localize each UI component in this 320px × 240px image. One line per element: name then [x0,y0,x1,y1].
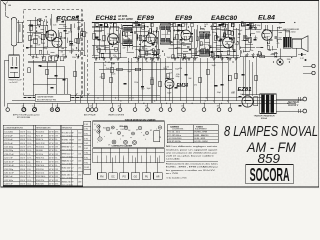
ECH81 grounds [94,58,119,61]
B+ supply top rail [92,23,285,28]
resistor R18 [102,73,104,79]
svg-text:0,1: 0,1 [72,45,74,47]
svg-text:R5 100 k: R5 100 k [36,146,45,148]
IF transformer T3 detector [199,32,210,56]
svg-text:220k: 220k [287,59,291,61]
svg-text:realises pour un appareil: realises pour un appareil ayant [166,148,218,151]
EF89 IF amp stage wiring [133,23,160,59]
svg-text:2,2k: 2,2k [179,44,182,46]
svg-text:R15 820: R15 820 [36,184,45,186]
svg-text:47k: 47k [277,43,280,45]
svg-text:50pF: 50pF [238,30,242,32]
svg-text:EF: EF [136,130,138,132]
svg-text:50pF: 50pF [147,88,151,90]
svg-text:EF89 85 V: EF89 85 V [62,146,72,148]
power transformer label [254,114,276,120]
svg-text:RESISTANCES: RESISTANCES [36,126,51,129]
trimmer capacitor row [29,19,45,43]
capacitor C12 [143,40,146,41]
svg-text:5%: 5% [55,139,58,141]
svg-text:1nF: 1nF [123,47,126,49]
svg-text:R4 2,2 M: R4 2,2 M [36,143,45,145]
ferrite rod antenna L1 [11,18,22,47]
capacitor C5 [70,43,73,44]
svg-text:C15 220p: C15 220p [4,150,14,152]
svg-text:100p: 100p [170,44,174,46]
chassis layout parts [94,124,162,146]
svg-text:2 W: 2 W [55,154,59,156]
chassis underside view box [93,119,165,148]
svg-text:500p: 500p [163,68,167,70]
magic eye EM34 [165,78,174,101]
svg-text:235: 235 [78,167,81,169]
svg-text:o o: o o [130,137,132,139]
svg-text:450 V: 450 V [20,154,26,156]
component value annotations [35,23,291,96]
svg-text:500p: 500p [257,25,261,27]
svg-text:10 %: 10 % [27,165,32,167]
vertical feed wires to chassis bus [94,55,245,103]
svg-text:EL84: EL84 [258,15,275,22]
svg-text:150: 150 [78,132,81,134]
svg-text:5nF: 5nF [173,37,176,39]
filter capacitor block [254,97,258,106]
resistor R20 [151,58,153,103]
svg-text:ECC85 - EM34: ECC85 - EM34 [195,141,209,143]
svg-text:100p: 100p [101,40,105,42]
svg-text:1/2 W: 1/2 W [49,176,54,178]
svg-text:450 V: 450 V [20,180,26,182]
svg-text:450 V: 450 V [20,135,26,137]
svg-text:FM: FM [100,176,103,178]
svg-text:450 V: 450 V [20,158,26,160]
svg-text:une resistance de 20000 ohm: une resistance de 20000 ohms par [166,151,218,154]
resistor R10 [155,37,157,43]
svg-text:mes. 20 kO/V: mes. 20 kO/V [62,143,74,145]
svg-text:R13 330 k: R13 330 k [36,176,46,178]
svg-text:1 W: 1 W [55,180,59,182]
svg-text:R7 33 k: R7 33 k [36,154,44,156]
resistor R16 [249,37,251,43]
svg-text:10%: 10% [55,184,59,186]
push button keys [98,158,163,180]
svg-text:450 V: 450 V [20,132,26,134]
keyboard switch comb [93,148,165,162]
svg-text:C4 50 pF: C4 50 pF [4,135,13,137]
svg-text:TYPE 2250: TYPE 2250 [285,32,297,34]
svg-text:R10 56 k: R10 56 k [36,165,45,167]
svg-text:25uF: 25uF [222,37,226,39]
svg-text:1/2 W: 1/2 W [49,173,54,175]
svg-text:8uF: 8uF [56,55,59,57]
svg-text:10%: 10% [55,132,59,134]
svg-text:2,2k: 2,2k [274,57,277,59]
svg-text:1nF: 1nF [145,38,148,40]
FM front-end wiring [26,14,84,56]
svg-text:450 V: 450 V [20,173,26,175]
svg-text:12k: 12k [232,24,235,26]
svg-text:5%: 5% [55,158,58,160]
EABC80 tube symbol [223,37,234,48]
svg-text:47k: 47k [246,95,249,97]
svg-text:volt et au plus basse calibre: volt et au plus basse calibre [166,155,215,158]
svg-text:R14 22 k: R14 22 k [36,180,45,182]
svg-text:470k: 470k [111,63,115,65]
svg-text:184: 184 [78,146,81,148]
dial lamp label box [35,94,70,101]
svg-text:1nF: 1nF [80,40,83,42]
svg-text:1 W: 1 W [55,173,59,175]
earphone jack [277,49,283,65]
border frame [1,1,319,187]
svg-text:C12 100p: C12 100p [4,146,14,148]
svg-text:2,2k: 2,2k [100,77,103,79]
svg-text:CH: CH [128,130,130,132]
power transformer [260,94,277,114]
svg-text:220k: 220k [138,56,142,58]
svg-text:mes. 20 kO/V: mes. 20 kO/V [62,185,74,187]
svg-text:C9 25 uF: C9 25 uF [4,143,13,145]
svg-text:20 %: 20 % [27,180,32,182]
svg-text:100p: 100p [176,76,180,78]
svg-text:30pF: 30pF [127,71,131,73]
svg-text:47k: 47k [113,55,116,57]
svg-text:NB Les differents reglages on: NB Les differents reglages ont ete [166,145,219,148]
svg-text:220k: 220k [216,49,220,51]
svg-text:8uF: 8uF [183,45,186,47]
svg-text:OC 16 - 52 m: OC 16 - 52 m [169,132,181,134]
tone capacitor [298,53,306,60]
svg-text:1/2 W: 1/2 W [49,154,54,156]
svg-text:220k: 220k [134,82,138,84]
ECH81 stage wiring [92,23,122,59]
switch caption texts [13,113,125,119]
capacitor C8 [63,79,66,80]
svg-text:0,5M: 0,5M [145,51,149,53]
AVC bus [94,61,228,63]
svg-text:1/2 W: 1/2 W [49,135,54,137]
svg-text:285: 285 [217,106,220,108]
svg-text:1k: 1k [265,37,267,39]
capacitor C21 [141,86,144,87]
svg-text:300o: 300o [69,41,73,43]
svg-text:8uF: 8uF [142,88,145,90]
second EF89 grounds [173,58,196,61]
svg-text:mes. 20 kO/V: mes. 20 kO/V [62,164,74,166]
phono output jack [303,64,315,74]
svg-text:50pF: 50pF [217,92,221,94]
svg-text:C18 47 nF: C18 47 nF [4,154,14,156]
svg-text:ou 2e H.P.: ou 2e H.P. [10,82,19,84]
svg-text:C31 220p: C31 220p [4,169,14,171]
second EF89 stage wiring [171,23,198,59]
resistor R14 [232,37,234,43]
output transformer [267,25,291,48]
svg-text:100p: 100p [201,29,205,31]
svg-text:220k: 220k [68,32,72,34]
svg-text:les gammes a verifier au: les gammes a verifier au 20 kO/V [166,169,216,172]
svg-text:450 V: 450 V [20,139,26,141]
IF transformer T1 [123,26,133,46]
capacitor C22 [185,74,188,75]
pick-up input box PU [9,55,23,84]
svg-text:218: 218 [78,160,81,162]
svg-text:2,2k: 2,2k [232,92,235,94]
svg-text:25uF: 25uF [106,68,110,70]
svg-text:1/2 W: 1/2 W [49,169,54,171]
svg-text:10 EC: 10 EC [84,167,90,169]
svg-text:2x25: 2x25 [112,74,116,76]
loudspeaker [292,36,308,52]
svg-text:1 W: 1 W [55,146,59,148]
svg-text:ECH81 - EF89: ECH81 - EF89 [195,132,208,134]
svg-text:C24 10 uF: C24 10 uF [4,161,14,163]
svg-text:EF89 210 V: EF89 210 V [62,153,73,155]
svg-text:8uF: 8uF [189,78,192,80]
resistor R13 [215,35,217,41]
EABC80 detector stage wiring [210,23,240,59]
svg-text:470k: 470k [195,52,199,54]
svg-text:450 V: 450 V [20,169,26,171]
svg-text:2x25: 2x25 [169,72,173,74]
resistor R2 [77,38,79,44]
svg-text:47k: 47k [148,36,151,38]
svg-text:C44 8 uF: C44 8 uF [4,184,13,186]
svg-text:827 FM 851 AM: 827 FM 851 AM [17,116,30,119]
SOCORA logo box [246,164,293,185]
svg-text:C1 2x450: C1 2x450 [4,132,14,134]
paper grain [0,0,320,189]
svg-text:230: 230 [181,106,184,108]
svg-text:C7 10 nF: C7 10 nF [4,139,13,141]
svg-text:mes. 20 kO/V: mes. 20 kO/V [62,157,74,159]
svg-text:O du mandrin a 7/16: O du mandrin a 7/16 [167,177,188,180]
svg-text:EABC80: EABC80 [211,15,237,22]
svg-text:ONDES COURTES: ONDES COURTES [108,114,125,116]
svg-text:EZ81: EZ81 [238,87,252,93]
svg-text:1 W: 1 W [55,135,59,137]
svg-text:PO: PO [123,176,127,178]
second EF89 tube symbol [181,30,191,40]
svg-text:5 %: 5 % [27,176,31,178]
resistor R7 [103,35,105,41]
svg-text:12k: 12k [145,48,148,50]
ECC85 triode a [46,30,57,41]
svg-text:0,05: 0,05 [53,25,56,27]
svg-text:2x25: 2x25 [254,38,258,40]
chassis wiring bus [8,96,303,104]
svg-text:R6 680: R6 680 [36,150,43,152]
svg-text:450 V: 450 V [20,146,26,148]
FM tuner lower wiring [28,60,84,97]
tube legend strip [84,121,91,174]
svg-text:2x25: 2x25 [248,28,252,30]
additional decoupling parts [111,67,231,88]
capacitor C18 [219,40,222,41]
svg-text:167: 167 [78,139,81,141]
svg-text:5%: 5% [55,150,58,152]
svg-text:50pF: 50pF [69,51,73,53]
components value table [3,125,83,186]
svg-text:R8 470 k: R8 470 k [36,158,45,160]
svg-text:CONTACTS CLAVIER: CONTACTS CLAVIER [112,145,133,148]
svg-text:ECH81 - EF89 - EF89 et EABC8: ECH81 - EF89 - EF89 et EABC80 par [166,166,218,169]
trimmer row lower [42,57,63,61]
resistor R9 [139,35,141,41]
svg-text:1nF: 1nF [39,38,42,40]
svg-text:0,1: 0,1 [155,46,157,48]
svg-text:1 W: 1 W [55,176,59,178]
switch contact arrows [75,94,89,104]
resistor R4 [46,69,48,75]
contacts clavier label [112,145,133,148]
svg-text:2x25: 2x25 [204,24,208,26]
svg-text:EM34: EM34 [177,83,189,89]
svg-text:GO 1000-2000: GO 1000-2000 [169,138,182,140]
feedback network [240,48,296,58]
svg-text:47k: 47k [167,77,170,79]
wire antenna lead [6,12,10,19]
svg-text:10 %: 10 % [27,150,32,152]
capacitor C4 [64,30,67,31]
ECC85 triode b [52,38,62,48]
svg-text:0,05: 0,05 [107,33,110,35]
svg-text:CH: CH [108,144,110,146]
svg-text:mes. 20 kO/V: mes. 20 kO/V [62,136,74,138]
svg-text:10nF: 10nF [113,39,117,41]
rectifier feed wiring [242,57,260,96]
svg-text:250: 250 [118,106,121,108]
svg-text:EABC80 1,2: EABC80 1,2 [62,159,73,162]
coil winding table [167,125,218,144]
svg-text:EF: EF [110,133,112,135]
coil L2 [46,31,48,37]
svg-text:10%: 10% [55,161,59,163]
resistor R5 [74,71,76,77]
cathode capacitor [254,39,257,40]
svg-text:1/2 W: 1/2 W [49,143,54,145]
svg-text:EZ81 285 V: EZ81 285 V [62,174,73,176]
svg-text:EQUIPEMENT: EQUIPEMENT [195,129,208,131]
svg-text:1nF: 1nF [62,54,65,56]
svg-text:Redressement des resistances: Redressement des resistances des tubes [166,163,219,166]
svg-text:au 7/8: au 7/8 [166,173,180,175]
svg-text:ECC85: ECC85 [56,15,79,22]
svg-text:R1 220 k: R1 220 k [36,132,45,134]
FM tuner unit dashed enclosure [23,10,82,97]
svg-text:1/2 W: 1/2 W [49,180,54,182]
capacitor C7 [55,75,58,76]
EABC80 grounds [212,58,237,61]
resistor R23 [235,73,237,79]
svg-text:ECH81: ECH81 [96,15,117,22]
svg-text:25uF: 25uF [36,45,40,47]
svg-text:300o: 300o [212,32,216,34]
tone potentiometer [55,108,59,112]
transistor sub note [117,15,133,21]
svg-text:mes. 20 kO/V: mes. 20 kO/V [62,171,74,173]
svg-text:C 47: C 47 [300,58,304,60]
svg-text:20 %: 20 % [27,146,32,148]
resistor R19 [110,77,112,83]
junction dot near speaker [305,59,307,61]
capacitor C15 [180,39,183,40]
capacitor C23 [221,84,224,85]
svg-text:220k: 220k [72,57,76,59]
svg-text:350p: 350p [35,57,39,59]
EZ81 rectifier tube [239,95,259,108]
svg-text:6,3: 6,3 [90,106,92,108]
svg-text:47k: 47k [194,85,197,87]
svg-text:sensible: sensible [166,159,181,161]
svg-text:EV: EV [122,136,124,138]
svg-text:12k: 12k [279,23,282,25]
svg-text:C35 15 nF: C35 15 nF [4,173,14,175]
svg-text:TENSIONS: TENSIONS [62,127,73,129]
oscillator dashed partition [87,40,89,97]
svg-text:1/2 W: 1/2 W [49,161,54,163]
svg-text:8uF: 8uF [187,58,190,60]
resistor R1 [29,35,31,41]
svg-text:50k: 50k [179,68,182,70]
svg-text:350p: 350p [81,31,85,33]
svg-text:R9 1 k: R9 1 k [36,161,43,163]
svg-text:o o: o o [116,129,118,131]
svg-text:0,1: 0,1 [185,23,187,25]
additional stage wiring detail [26,16,282,60]
svg-text:EL84 - EZ81: EL84 - EZ81 [195,138,206,140]
svg-text:1/2 W: 1/2 W [49,132,54,134]
svg-text:C41 100n: C41 100n [4,180,13,182]
resistor R8 [117,37,119,43]
svg-text:47k: 47k [227,48,230,50]
wire junction dots [92,22,296,104]
svg-text:CADRE ANTENNE: CADRE ANTENNE [37,95,54,98]
svg-text:8,2: 8,2 [94,124,96,126]
svg-text:C27 50 uF: C27 50 uF [4,165,14,167]
svg-text:5,6: 5,6 [94,129,96,131]
svg-text:C38 2 nF: C38 2 nF [4,176,13,178]
svg-text:R3 47 k: R3 47 k [36,139,44,141]
svg-text:150p: 150p [169,42,173,44]
IF transformer T2 [160,24,171,44]
EF89 grounds [136,58,159,61]
oscillator coil [93,33,95,39]
svg-text:25uF: 25uF [41,43,45,45]
EF89 tube symbol [146,34,156,44]
svg-text:PO 187-580 m: PO 187-580 m [169,135,182,137]
svg-text:2,2k: 2,2k [104,27,107,29]
svg-text:mes. 20 kO/V: mes. 20 kO/V [62,178,74,180]
svg-text:5%: 5% [55,165,58,167]
svg-text:FM 87-100 Mc: FM 87-100 Mc [169,141,182,143]
svg-text:1/2 W: 1/2 W [49,158,54,160]
svg-text:mes. 20 kO/V: mes. 20 kO/V [62,150,74,152]
svg-text:SECTEUR: SECTEUR [288,102,299,104]
svg-text:1/2 W: 1/2 W [49,165,54,167]
svg-text:450 V: 450 V [20,150,26,152]
svg-text:1/2 W: 1/2 W [49,146,54,148]
svg-text:GO: GO [134,176,138,178]
svg-text:269: 269 [78,181,81,183]
svg-text:10 %: 10 % [27,139,32,141]
svg-text:350p: 350p [235,44,239,46]
adjustment notes paragraph [166,145,219,180]
svg-text:CONDENSATEURS: CONDENSATEURS [5,126,24,129]
svg-text:1/2 W: 1/2 W [49,139,54,141]
svg-text:450 V: 450 V [20,184,26,186]
svg-text:C21 5 nF: C21 5 nF [4,158,13,160]
